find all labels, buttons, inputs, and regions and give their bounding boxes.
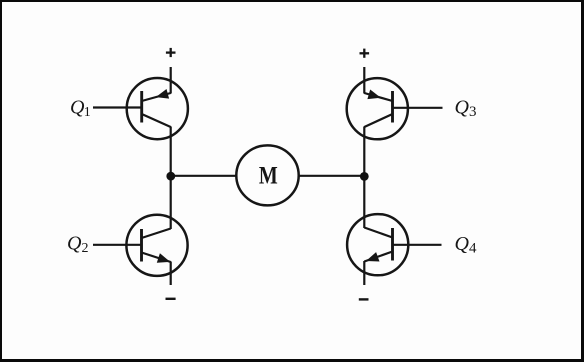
svg-text:4: 4: [469, 241, 477, 257]
svg-text:Q: Q: [455, 233, 470, 255]
svg-text:Q: Q: [455, 97, 470, 119]
svg-text:M: M: [259, 162, 278, 190]
svg-text:2: 2: [82, 241, 89, 256]
svg-text:Q: Q: [67, 233, 82, 255]
svg-text:3: 3: [469, 104, 477, 120]
svg-text:1: 1: [84, 105, 91, 120]
svg-text:Q: Q: [70, 97, 85, 119]
